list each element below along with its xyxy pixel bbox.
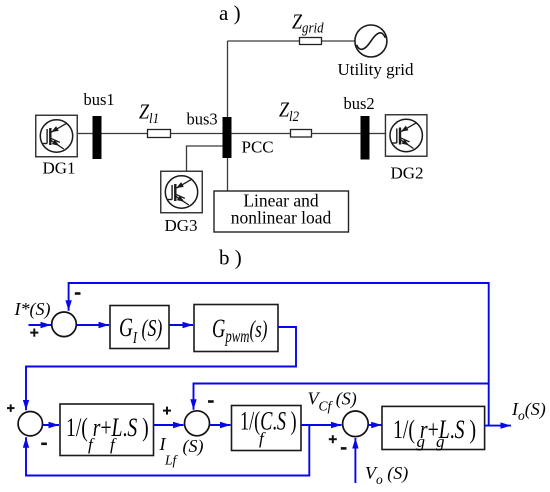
label 1/(rg+Lg.S) bbox=[393, 414, 476, 443]
resistor Zl2 bbox=[291, 130, 312, 138]
resistor Zgrid bbox=[300, 38, 322, 45]
svg-text:bus2: bus2 bbox=[344, 94, 375, 113]
block Gpwm bbox=[194, 305, 278, 352]
label 1/(Cf.S) bbox=[240, 406, 297, 435]
label Gpwm(s) bbox=[212, 314, 267, 347]
DG2 bbox=[385, 115, 427, 157]
svg-text:Io(S): Io(S) bbox=[511, 399, 546, 423]
wire Gpwm to sum2 bbox=[26, 327, 296, 410]
summing junction S3 bbox=[185, 411, 210, 436]
svg-text:Zl2: Zl2 bbox=[279, 99, 299, 125]
minus sign sum3 bbox=[208, 400, 214, 403]
svg-text:DG3: DG3 bbox=[165, 216, 198, 235]
svg-text:Zgrid: Zgrid bbox=[292, 11, 324, 36]
label Zl2 bbox=[279, 99, 299, 125]
svg-text:nonlinear load: nonlinear load bbox=[231, 208, 332, 228]
bus2 bar bbox=[361, 116, 370, 160]
svg-text:(S): (S) bbox=[183, 436, 204, 457]
wire PCC to load bbox=[227, 158, 229, 191]
minus sign sum2 bbox=[41, 442, 47, 445]
wire feedback Io to sum3 bbox=[194, 384, 489, 410]
wire input to sum1 bbox=[29, 324, 52, 326]
block 1/(rf+Lf.S) bbox=[60, 404, 154, 456]
label Zgrid bbox=[292, 11, 324, 36]
wire output Io bbox=[484, 425, 511, 427]
wire block1 to sum3 bbox=[154, 424, 184, 426]
svg-text:I: I bbox=[159, 434, 167, 454]
wire sum1 to GI bbox=[77, 324, 110, 326]
utility grid source bbox=[355, 25, 387, 57]
plus sign sum2 bbox=[7, 404, 15, 412]
svg-text:a ): a ) bbox=[219, 1, 241, 25]
wire bus3 to Zl2 bbox=[232, 133, 291, 135]
wire block2 to sum4 bbox=[301, 424, 342, 426]
wire sum3 to block2 bbox=[210, 424, 231, 426]
svg-text:bus1: bus1 bbox=[84, 90, 115, 109]
svg-text:PCC: PCC bbox=[242, 138, 274, 157]
svg-text:I*(S): I*(S) bbox=[14, 299, 51, 320]
svg-text:Vo (S): Vo (S) bbox=[365, 463, 408, 487]
plus sign sum4 bbox=[329, 435, 337, 443]
summing junction S2 bbox=[18, 412, 42, 436]
wire bus3 to grid vertical bbox=[227, 41, 229, 134]
wire Zl2 to bus2 bbox=[312, 133, 361, 135]
wire sum4 to block3 bbox=[368, 424, 382, 426]
block 1/(Cf.S) bbox=[232, 406, 302, 451]
label Zl1 bbox=[139, 101, 159, 127]
svg-text:VCf (S): VCf (S) bbox=[308, 389, 357, 414]
svg-text:bus3: bus3 bbox=[187, 110, 218, 129]
svg-text:DG2: DG2 bbox=[391, 164, 424, 183]
wire Zl1 to bus3 bbox=[171, 133, 223, 135]
plus sign ILf bbox=[163, 407, 171, 415]
block GI bbox=[110, 306, 169, 349]
summing junction S4 bbox=[343, 411, 369, 437]
block 1/(rg+Lg.S) bbox=[382, 406, 485, 449]
wire bus1 to Zl1 bbox=[102, 133, 148, 135]
DG3 bbox=[161, 171, 203, 213]
minus sign sum4 bbox=[341, 447, 347, 450]
wire bus2 to DG2 bbox=[370, 133, 386, 135]
wire Vo input bbox=[354, 438, 356, 483]
resistor Zl1 bbox=[148, 130, 171, 138]
svg-text:Zl1: Zl1 bbox=[139, 101, 159, 127]
svg-text:1/( r+L.S ): 1/( r+L.S ) bbox=[66, 412, 149, 441]
svg-text:g: g bbox=[417, 432, 426, 451]
svg-text:DG1: DG1 bbox=[43, 159, 76, 178]
wire GI to Gpwm bbox=[169, 324, 193, 326]
wire bus3 to DG3 bbox=[187, 146, 223, 171]
wire DG1 to bus1 bbox=[77, 133, 93, 135]
plus sign sum1 bbox=[30, 329, 38, 337]
wire grid horizontal bbox=[228, 40, 356, 42]
svg-text:Lf: Lf bbox=[164, 453, 179, 468]
svg-text:1/(C.S ): 1/(C.S ) bbox=[240, 406, 297, 435]
minus sign sum1 bbox=[75, 292, 81, 295]
svg-text:Utility grid: Utility grid bbox=[338, 60, 415, 79]
label 1/(rf+Lf.S) bbox=[66, 412, 149, 441]
load box bbox=[214, 191, 349, 232]
svg-text:1/( r+L.S ): 1/( r+L.S ) bbox=[393, 414, 476, 443]
bus3 bar bbox=[223, 117, 232, 158]
wire feedback Io to sum1 bbox=[69, 283, 489, 426]
label GI(S) bbox=[119, 313, 162, 347]
svg-text:g: g bbox=[436, 432, 445, 451]
wire sum2 to block1 bbox=[43, 424, 60, 426]
svg-text:b ): b ) bbox=[219, 246, 242, 270]
wire feedback VCf to sum2 bbox=[26, 425, 309, 476]
bus1 bar bbox=[93, 116, 102, 159]
summing junction S1 bbox=[52, 312, 77, 337]
DG1 bbox=[36, 115, 78, 157]
